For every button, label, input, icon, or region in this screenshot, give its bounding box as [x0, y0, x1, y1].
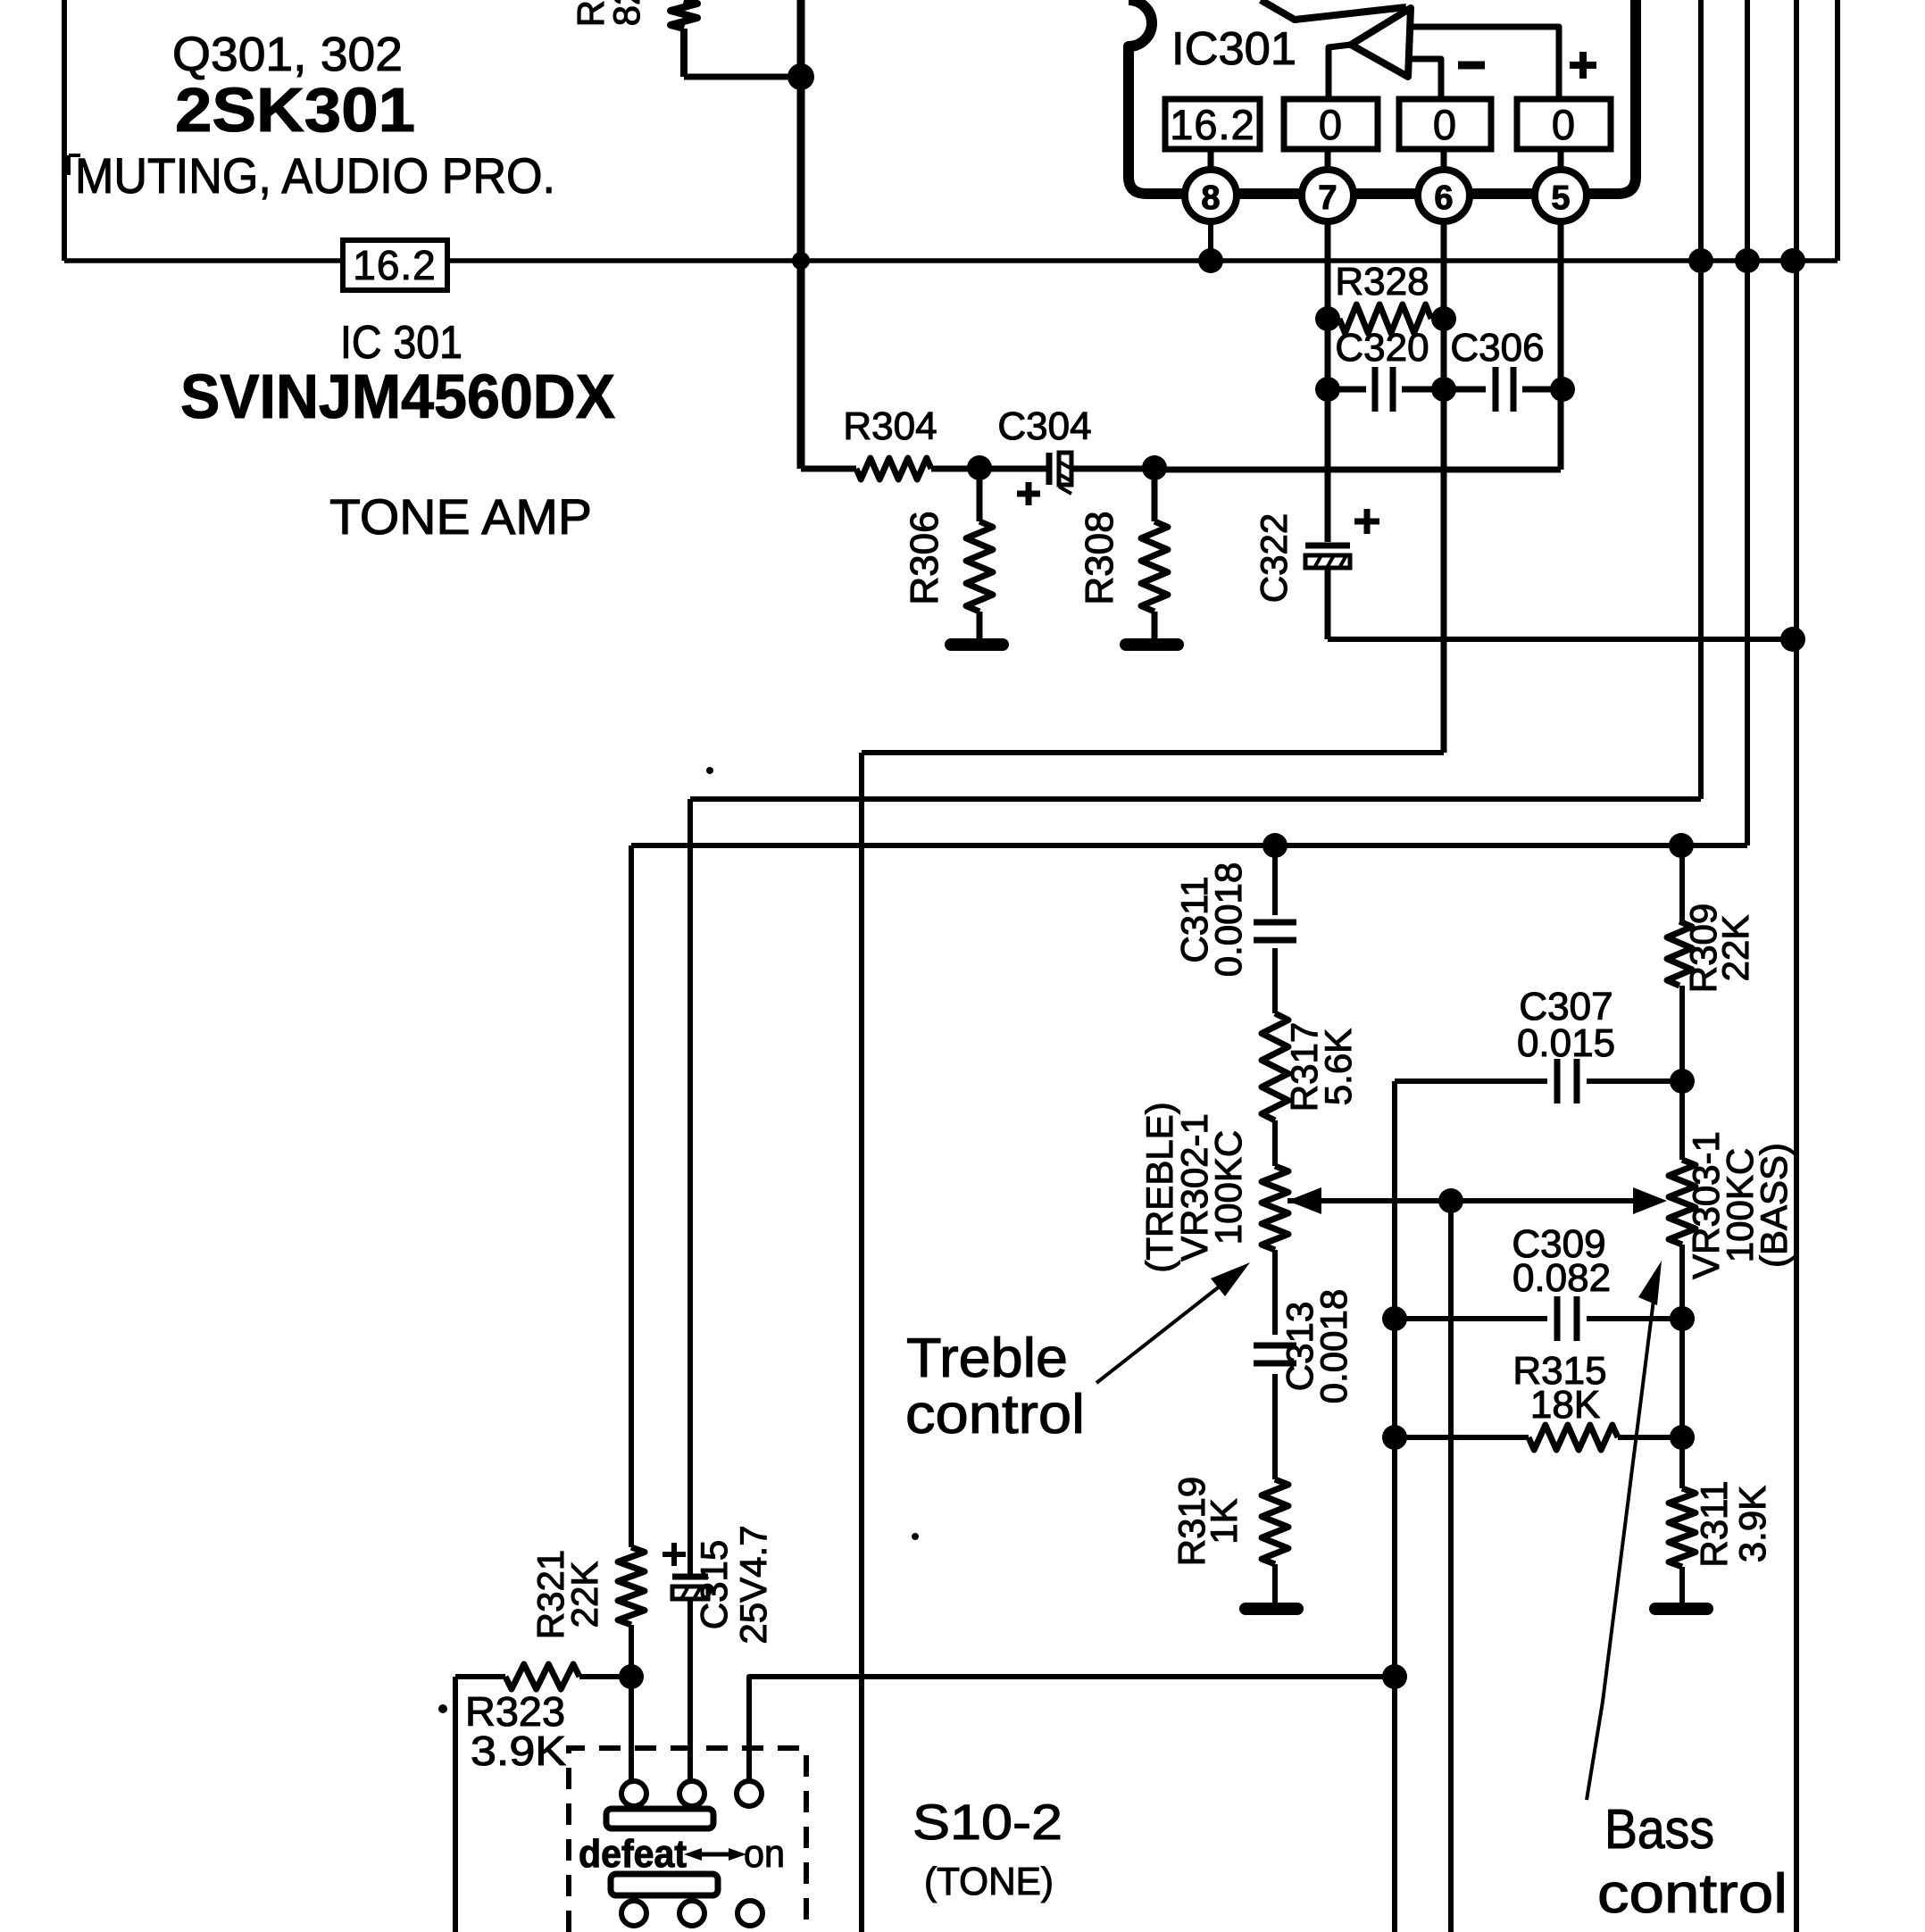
svg-text:16.2: 16.2: [1170, 101, 1254, 148]
svg-text:SVINJM4560DX: SVINJM4560DX: [180, 362, 615, 431]
svg-text:on: on: [744, 1832, 785, 1876]
svg-text:Q301, 302: Q301, 302: [172, 28, 403, 81]
svg-text:22K: 22K: [563, 1561, 605, 1628]
svg-text:R306: R306: [903, 511, 946, 604]
svg-text:MUTING, AUDIO PRO.: MUTING, AUDIO PRO.: [75, 147, 555, 204]
svg-text:3.9K: 3.9K: [471, 1728, 566, 1774]
svg-text:0: 0: [1319, 101, 1343, 148]
svg-text:2SK301: 2SK301: [175, 75, 415, 145]
svg-text:0.0018: 0.0018: [1312, 1289, 1354, 1403]
svg-text:R311: R311: [1693, 1480, 1735, 1567]
svg-text:C304: C304: [997, 404, 1091, 448]
svg-text:25V4.7: 25V4.7: [732, 1525, 774, 1644]
svg-text:100KC: 100KC: [1207, 1130, 1249, 1245]
svg-text:6: 6: [1434, 179, 1453, 217]
svg-text:0: 0: [1552, 101, 1576, 148]
svg-text:TONE AMP: TONE AMP: [329, 488, 592, 545]
svg-text:defeat: defeat: [579, 1832, 687, 1876]
svg-text:IC301: IC301: [1171, 23, 1296, 75]
svg-text:(TONE): (TONE): [924, 1860, 1054, 1903]
svg-text:5.6K: 5.6K: [1317, 1028, 1359, 1105]
svg-text:(BASS): (BASS): [1753, 1143, 1795, 1268]
svg-text:22K: 22K: [1714, 915, 1756, 982]
svg-text:C306: C306: [1450, 326, 1544, 370]
svg-text:7: 7: [1318, 179, 1337, 217]
svg-text:control: control: [1597, 1863, 1787, 1925]
svg-text:0.0018: 0.0018: [1207, 862, 1249, 977]
svg-text:Treble: Treble: [906, 1328, 1068, 1389]
svg-text:R328: R328: [1335, 260, 1429, 304]
svg-text:R308: R308: [1078, 511, 1121, 604]
svg-text:S10-2: S10-2: [912, 1794, 1062, 1850]
svg-text:Bass: Bass: [1604, 1799, 1714, 1861]
svg-text:control: control: [905, 1384, 1085, 1445]
svg-text:82K: 82K: [605, 0, 647, 26]
svg-text:3.9K: 3.9K: [1731, 1486, 1773, 1562]
svg-text:0.015: 0.015: [1517, 1021, 1615, 1065]
svg-text:1K: 1K: [1203, 1498, 1245, 1544]
svg-text:5: 5: [1551, 179, 1570, 217]
svg-text:C315: C315: [693, 1540, 735, 1629]
svg-text:8: 8: [1201, 179, 1220, 217]
svg-text:R304: R304: [843, 404, 937, 448]
svg-text:0.082: 0.082: [1512, 1256, 1611, 1300]
svg-text:18K: 18K: [1530, 1383, 1600, 1427]
svg-text:16.2: 16.2: [353, 242, 437, 288]
svg-text:C322: C322: [1253, 513, 1295, 603]
svg-text:C320: C320: [1335, 326, 1429, 370]
svg-text:0: 0: [1433, 101, 1457, 148]
